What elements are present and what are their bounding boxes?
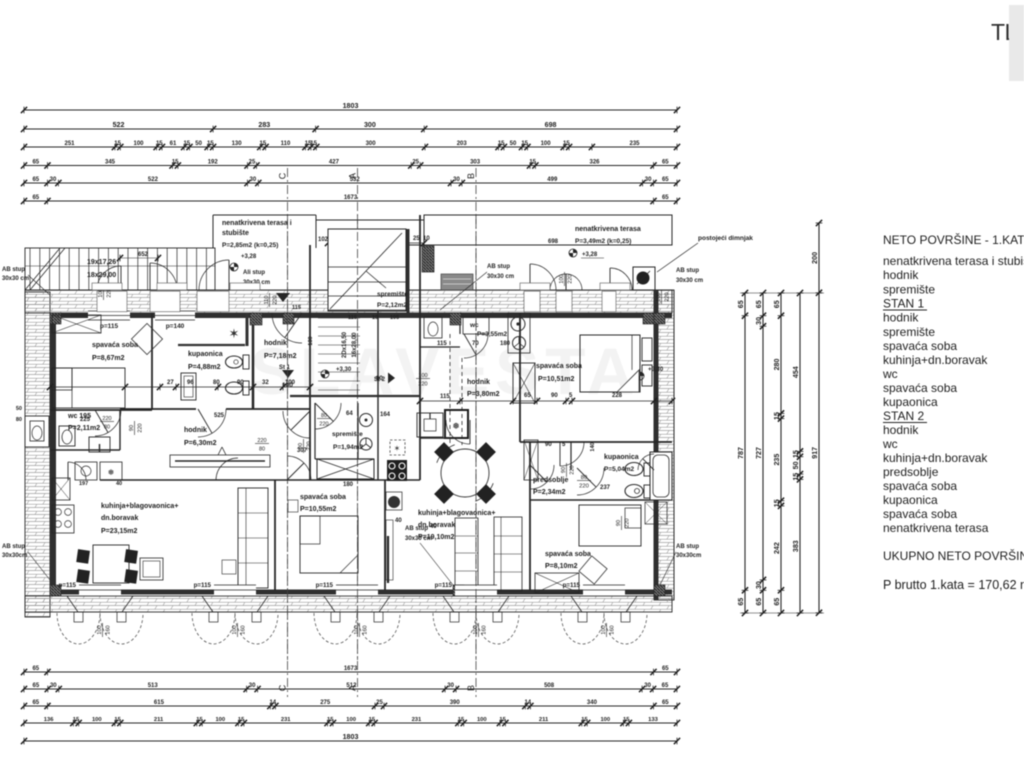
svg-text:164: 164 bbox=[380, 412, 391, 418]
svg-text:15: 15 bbox=[773, 499, 781, 507]
svg-text:180: 180 bbox=[500, 341, 511, 347]
svg-text:P=8,67m2: P=8,67m2 bbox=[92, 355, 125, 362]
svg-text:160: 160 bbox=[106, 625, 112, 634]
svg-text:454: 454 bbox=[792, 366, 800, 378]
svg-text:160: 160 bbox=[482, 625, 488, 634]
svg-text:130: 130 bbox=[232, 141, 243, 147]
svg-text:100: 100 bbox=[97, 625, 103, 634]
svg-text:hodnik: hodnik bbox=[883, 268, 919, 282]
svg-text:220: 220 bbox=[570, 465, 576, 474]
svg-text:65: 65 bbox=[662, 683, 669, 689]
svg-text:A: A bbox=[348, 685, 358, 691]
svg-text:kuhinja+blagovaonica+: kuhinja+blagovaonica+ bbox=[101, 503, 178, 510]
svg-text:15: 15 bbox=[327, 717, 334, 723]
svg-text:15: 15 bbox=[114, 717, 121, 723]
svg-text:237: 237 bbox=[600, 485, 611, 491]
svg-text:115: 115 bbox=[292, 305, 301, 311]
svg-text:spavaća soba: spavaća soba bbox=[883, 479, 957, 493]
svg-text:698: 698 bbox=[548, 239, 559, 245]
svg-text:200: 200 bbox=[811, 252, 819, 264]
svg-text:100: 100 bbox=[346, 717, 356, 723]
svg-text:hodnik: hodnik bbox=[184, 427, 207, 434]
svg-text:kupaonica: kupaonica bbox=[604, 454, 639, 461]
svg-text:15: 15 bbox=[563, 141, 570, 147]
svg-text:P=7,18m2: P=7,18m2 bbox=[264, 353, 297, 360]
svg-text:15: 15 bbox=[73, 717, 80, 723]
svg-text:15: 15 bbox=[183, 141, 190, 147]
svg-text:140: 140 bbox=[590, 442, 596, 451]
svg-text:203: 203 bbox=[457, 141, 468, 147]
svg-text:14: 14 bbox=[269, 700, 276, 706]
svg-text:spremište: spremište bbox=[883, 325, 935, 339]
svg-text:30: 30 bbox=[453, 177, 460, 183]
svg-text:spavaća soba: spavaća soba bbox=[883, 339, 957, 353]
svg-text:1803: 1803 bbox=[343, 733, 359, 741]
svg-text:30x30 cm: 30x30 cm bbox=[405, 536, 432, 542]
svg-text:100: 100 bbox=[92, 717, 102, 723]
svg-text:30x30cm: 30x30cm bbox=[2, 553, 27, 559]
svg-text:65: 65 bbox=[32, 195, 39, 201]
svg-text:110: 110 bbox=[281, 141, 291, 147]
svg-text:115: 115 bbox=[437, 341, 447, 347]
svg-text:275: 275 bbox=[320, 700, 331, 706]
svg-text:30: 30 bbox=[755, 581, 763, 589]
svg-text:P brutto 1.kata = 170,62 m: P brutto 1.kata = 170,62 m bbox=[883, 578, 1024, 592]
svg-text:211: 211 bbox=[539, 717, 549, 723]
svg-text:25: 25 bbox=[249, 159, 256, 165]
svg-text:❅: ❅ bbox=[108, 468, 115, 477]
svg-text:p=140: p=140 bbox=[166, 323, 185, 330]
svg-text:❅: ❅ bbox=[452, 421, 460, 431]
svg-text:kupaonica: kupaonica bbox=[883, 395, 938, 409]
svg-text:300: 300 bbox=[364, 121, 376, 129]
svg-text:303: 303 bbox=[470, 159, 481, 165]
svg-text:100: 100 bbox=[354, 625, 360, 634]
svg-text:nenatkrivena terasa: nenatkrivena terasa bbox=[883, 521, 989, 535]
svg-text:197: 197 bbox=[79, 481, 88, 487]
svg-text:15: 15 bbox=[521, 141, 528, 147]
svg-text:110: 110 bbox=[264, 296, 270, 305]
svg-text:wc: wc bbox=[882, 437, 898, 451]
svg-text:220: 220 bbox=[138, 423, 144, 432]
svg-text:30x30 cm: 30x30 cm bbox=[2, 276, 29, 282]
svg-text:wc: wc bbox=[882, 367, 898, 381]
svg-text:19x17,26: 19x17,26 bbox=[87, 259, 116, 266]
svg-text:AB stup: AB stup bbox=[676, 268, 699, 274]
svg-text:30: 30 bbox=[250, 177, 257, 183]
svg-text:P=2,85m2 (k=0,25): P=2,85m2 (k=0,25) bbox=[222, 242, 278, 249]
svg-text:100: 100 bbox=[600, 717, 610, 723]
svg-text:14: 14 bbox=[524, 700, 531, 706]
svg-text:90: 90 bbox=[545, 442, 552, 448]
svg-text:15: 15 bbox=[792, 473, 800, 481]
svg-text:30x30 cm: 30x30 cm bbox=[676, 278, 703, 284]
svg-text:15: 15 bbox=[310, 141, 317, 147]
svg-text:30: 30 bbox=[50, 683, 57, 689]
svg-text:65: 65 bbox=[662, 666, 669, 672]
svg-text:251: 251 bbox=[64, 141, 75, 147]
svg-text:10: 10 bbox=[372, 315, 378, 321]
svg-text:Ali stup: Ali stup bbox=[243, 270, 265, 276]
svg-text:15: 15 bbox=[458, 717, 465, 723]
svg-text:427: 427 bbox=[329, 159, 340, 165]
svg-text:615: 615 bbox=[154, 700, 165, 706]
svg-text:50: 50 bbox=[792, 461, 800, 469]
svg-text:100: 100 bbox=[541, 141, 552, 147]
svg-text:522: 522 bbox=[113, 121, 125, 129]
svg-text:220: 220 bbox=[102, 416, 111, 422]
svg-text:283: 283 bbox=[258, 121, 270, 129]
svg-text:40: 40 bbox=[430, 524, 437, 530]
svg-text:100: 100 bbox=[477, 717, 487, 723]
svg-text:90: 90 bbox=[561, 467, 567, 473]
svg-text:30: 30 bbox=[249, 683, 256, 689]
svg-text:kuhinja+blagovaonica+: kuhinja+blagovaonica+ bbox=[418, 510, 495, 517]
svg-text:30x30 cm: 30x30 cm bbox=[487, 274, 514, 280]
svg-text:15: 15 bbox=[792, 450, 800, 458]
svg-text:p=115: p=115 bbox=[563, 582, 581, 589]
svg-text:15: 15 bbox=[196, 717, 203, 723]
svg-text:P=5,04m2: P=5,04m2 bbox=[604, 466, 635, 473]
svg-text:spremište: spremište bbox=[883, 283, 935, 297]
svg-text:spavaća soba: spavaća soba bbox=[883, 381, 957, 395]
svg-text:30: 30 bbox=[50, 177, 57, 183]
svg-text:spavaća soba: spavaća soba bbox=[545, 551, 591, 558]
svg-text:525: 525 bbox=[214, 413, 225, 419]
svg-text:220: 220 bbox=[418, 382, 427, 388]
svg-text:115: 115 bbox=[348, 315, 357, 321]
svg-text:spremište: spremište bbox=[377, 291, 408, 298]
svg-text:65: 65 bbox=[662, 177, 669, 183]
svg-text:100: 100 bbox=[559, 274, 565, 283]
svg-text:499: 499 bbox=[547, 177, 558, 183]
svg-text:kuhinja+dn.boravak: kuhinja+dn.boravak bbox=[883, 353, 988, 367]
svg-text:30x30cm: 30x30cm bbox=[676, 553, 701, 559]
svg-text:220: 220 bbox=[319, 422, 328, 428]
svg-text:390: 390 bbox=[450, 700, 461, 706]
svg-text:p=115: p=115 bbox=[435, 582, 453, 589]
svg-text:+3,30: +3,30 bbox=[336, 367, 352, 373]
svg-text:A: A bbox=[348, 173, 358, 179]
svg-text:15: 15 bbox=[623, 717, 630, 723]
svg-text:30: 30 bbox=[755, 317, 763, 325]
svg-text:15: 15 bbox=[260, 141, 267, 147]
svg-text:27: 27 bbox=[167, 380, 174, 386]
svg-text:1673: 1673 bbox=[344, 195, 358, 201]
svg-text:AB stup: AB stup bbox=[487, 264, 510, 270]
svg-text:spavaća soba: spavaća soba bbox=[536, 363, 582, 370]
svg-text:340: 340 bbox=[587, 700, 598, 706]
svg-text:513: 513 bbox=[148, 683, 159, 689]
svg-text:P=2,12m2: P=2,12m2 bbox=[377, 302, 408, 309]
svg-text:B: B bbox=[466, 685, 476, 691]
svg-text:50: 50 bbox=[16, 406, 22, 412]
svg-text:✶: ✶ bbox=[394, 444, 401, 453]
svg-text:P=4,88m2: P=4,88m2 bbox=[188, 364, 221, 371]
svg-text:65: 65 bbox=[737, 598, 745, 606]
svg-text:p=115: p=115 bbox=[59, 582, 77, 589]
svg-text:15: 15 bbox=[156, 141, 163, 147]
svg-text:AB stup: AB stup bbox=[2, 544, 25, 550]
svg-text:65: 65 bbox=[32, 159, 39, 165]
svg-text:C: C bbox=[278, 684, 288, 691]
svg-text:100: 100 bbox=[601, 625, 607, 634]
svg-text:P=10,55m2: P=10,55m2 bbox=[300, 506, 336, 513]
svg-text:225: 225 bbox=[80, 417, 91, 423]
svg-text:NETO POVRŠINE - 1.KAT:: NETO POVRŠINE - 1.KAT: bbox=[883, 232, 1024, 247]
svg-text:220: 220 bbox=[568, 274, 574, 283]
svg-text:STAN 1: STAN 1 bbox=[883, 297, 924, 311]
svg-text:15: 15 bbox=[172, 159, 179, 165]
svg-text:130: 130 bbox=[308, 336, 314, 345]
svg-text:30: 30 bbox=[645, 177, 652, 183]
svg-text:220: 220 bbox=[307, 441, 313, 450]
svg-text:80: 80 bbox=[581, 475, 587, 481]
svg-text:P=23,15m2: P=23,15m2 bbox=[101, 528, 137, 535]
svg-text:P=1,94m2: P=1,94m2 bbox=[333, 444, 364, 451]
svg-text:15: 15 bbox=[581, 717, 588, 723]
svg-text:15: 15 bbox=[238, 717, 245, 723]
svg-text:345: 345 bbox=[105, 159, 116, 165]
svg-text:P=2,34m2: P=2,34m2 bbox=[533, 489, 566, 496]
svg-text:nenatkrivena terasa: nenatkrivena terasa bbox=[575, 226, 641, 233]
svg-text:spavaća soba: spavaća soba bbox=[92, 342, 138, 349]
svg-text:65: 65 bbox=[32, 666, 39, 672]
svg-text:AB stup: AB stup bbox=[405, 526, 428, 532]
svg-text:231: 231 bbox=[281, 717, 291, 723]
svg-text:228: 228 bbox=[612, 393, 623, 399]
svg-text:65: 65 bbox=[737, 300, 745, 308]
svg-text:80: 80 bbox=[213, 380, 220, 386]
svg-text:65: 65 bbox=[32, 177, 39, 183]
svg-text:160: 160 bbox=[241, 625, 247, 634]
svg-text:p=115: p=115 bbox=[316, 582, 334, 589]
svg-text:25: 25 bbox=[376, 700, 383, 706]
svg-text:1673: 1673 bbox=[344, 666, 358, 672]
svg-text:15: 15 bbox=[773, 412, 781, 420]
svg-text:235: 235 bbox=[773, 454, 781, 466]
svg-text:40: 40 bbox=[395, 518, 402, 524]
svg-text:UKUPNO NETO POVRŠINA - 1: UKUPNO NETO POVRŠINA - 1 bbox=[883, 548, 1024, 563]
svg-text:2Dx16,50: 2Dx16,50 bbox=[342, 331, 348, 358]
svg-text:242: 242 bbox=[773, 542, 781, 554]
svg-text:652: 652 bbox=[138, 252, 149, 258]
svg-text:50: 50 bbox=[195, 141, 202, 147]
svg-text:spavaća soba: spavaća soba bbox=[883, 507, 957, 521]
svg-text:kuhinja+dn.boravak: kuhinja+dn.boravak bbox=[883, 451, 988, 465]
svg-text:stubište: stubište bbox=[222, 230, 249, 237]
svg-text:698: 698 bbox=[545, 121, 557, 129]
svg-text:90: 90 bbox=[298, 443, 304, 449]
svg-text:predsoblje: predsoblje bbox=[883, 465, 939, 479]
svg-text:15: 15 bbox=[499, 717, 506, 723]
svg-text:15: 15 bbox=[529, 159, 536, 165]
svg-text:65: 65 bbox=[755, 598, 763, 606]
svg-text:231: 231 bbox=[412, 717, 422, 723]
svg-text:917: 917 bbox=[811, 447, 819, 459]
svg-text:211: 211 bbox=[154, 717, 164, 723]
svg-text:kupaonica: kupaonica bbox=[188, 351, 223, 358]
svg-text:STAN 2: STAN 2 bbox=[883, 409, 924, 423]
svg-text:65: 65 bbox=[662, 700, 669, 706]
svg-text:+3,28: +3,28 bbox=[582, 252, 598, 258]
svg-text:50: 50 bbox=[510, 141, 517, 147]
svg-text:P=3,49m2 (k=0,25): P=3,49m2 (k=0,25) bbox=[575, 238, 631, 245]
svg-text:160: 160 bbox=[610, 625, 616, 634]
svg-text:64: 64 bbox=[346, 411, 353, 417]
svg-text:kupaonica: kupaonica bbox=[883, 493, 938, 507]
svg-text:hodnik: hodnik bbox=[467, 379, 490, 386]
svg-text:100: 100 bbox=[133, 141, 144, 147]
svg-text:15: 15 bbox=[369, 717, 376, 723]
svg-text:90: 90 bbox=[129, 425, 135, 431]
svg-text:15: 15 bbox=[207, 141, 214, 147]
svg-text:80: 80 bbox=[259, 447, 265, 453]
svg-text:hodnik: hodnik bbox=[883, 423, 919, 437]
svg-text:522: 522 bbox=[148, 177, 159, 183]
svg-text:220: 220 bbox=[273, 295, 279, 304]
svg-text:AB stup: AB stup bbox=[2, 267, 25, 273]
svg-text:65: 65 bbox=[662, 195, 669, 201]
svg-text:B: B bbox=[466, 173, 476, 179]
svg-text:105: 105 bbox=[390, 315, 399, 321]
svg-text:30: 30 bbox=[644, 683, 651, 689]
svg-text:St 2: St 2 bbox=[374, 377, 386, 383]
svg-text:100: 100 bbox=[418, 373, 427, 379]
svg-text:65: 65 bbox=[773, 598, 781, 606]
svg-text:160: 160 bbox=[363, 625, 369, 634]
svg-text:65: 65 bbox=[773, 300, 781, 308]
svg-text:p=115: p=115 bbox=[100, 323, 119, 330]
svg-text:80: 80 bbox=[16, 417, 22, 423]
svg-text:100: 100 bbox=[656, 292, 662, 301]
svg-text:25: 25 bbox=[412, 159, 419, 165]
svg-text:100: 100 bbox=[215, 717, 225, 723]
svg-text:40: 40 bbox=[116, 481, 122, 487]
svg-text:787: 787 bbox=[737, 447, 745, 459]
svg-text:+3,30: +3,30 bbox=[648, 367, 664, 373]
svg-text:P=6,30m2: P=6,30m2 bbox=[184, 440, 217, 447]
svg-text:nenatkrivena terasa i stubišt: nenatkrivena terasa i stubišt bbox=[883, 254, 1024, 268]
svg-text:280: 280 bbox=[773, 359, 781, 371]
svg-text:hodnik: hodnik bbox=[264, 340, 287, 347]
svg-text:61: 61 bbox=[170, 141, 177, 147]
svg-text:wc: wc bbox=[469, 322, 479, 329]
svg-text:+3,28: +3,28 bbox=[241, 254, 257, 260]
svg-text:383: 383 bbox=[792, 540, 800, 552]
svg-text:300: 300 bbox=[366, 141, 377, 147]
svg-text:65: 65 bbox=[32, 700, 39, 706]
svg-text:192: 192 bbox=[208, 159, 219, 165]
svg-text:90: 90 bbox=[616, 520, 622, 526]
svg-text:15: 15 bbox=[498, 141, 505, 147]
svg-text:220: 220 bbox=[625, 518, 631, 527]
svg-text:✶: ✶ bbox=[229, 326, 240, 341]
svg-text:136: 136 bbox=[44, 717, 54, 723]
svg-text:p=115: p=115 bbox=[194, 582, 212, 589]
svg-text:90: 90 bbox=[551, 393, 558, 399]
svg-text:C: C bbox=[278, 172, 288, 179]
svg-text:15: 15 bbox=[114, 141, 121, 147]
svg-text:30: 30 bbox=[447, 683, 454, 689]
svg-text:220: 220 bbox=[257, 438, 266, 444]
svg-text:65: 65 bbox=[755, 300, 763, 308]
svg-text:P=8,10m2: P=8,10m2 bbox=[545, 563, 578, 570]
svg-text:326: 326 bbox=[589, 159, 600, 165]
svg-text:65: 65 bbox=[33, 683, 40, 689]
svg-text:dn.boravak: dn.boravak bbox=[101, 515, 138, 522]
svg-text:220: 220 bbox=[579, 484, 589, 490]
svg-text:220: 220 bbox=[665, 292, 671, 301]
svg-text:235: 235 bbox=[629, 141, 640, 147]
svg-text:P=10,51m2: P=10,51m2 bbox=[538, 376, 574, 383]
svg-text:nenatkrivena terasa i: nenatkrivena terasa i bbox=[222, 220, 292, 227]
svg-text:508: 508 bbox=[544, 683, 555, 689]
svg-text:32: 32 bbox=[262, 380, 269, 386]
svg-text:100: 100 bbox=[232, 625, 238, 634]
svg-text:65: 65 bbox=[662, 159, 669, 165]
svg-text:postojeći dimnjak: postojeći dimnjak bbox=[698, 235, 753, 242]
svg-text:727: 727 bbox=[755, 447, 763, 459]
svg-text:P=3,55m2: P=3,55m2 bbox=[477, 331, 508, 338]
svg-text:115: 115 bbox=[440, 394, 450, 400]
svg-text:P=3,80m2: P=3,80m2 bbox=[467, 391, 500, 398]
svg-text:hodnik: hodnik bbox=[883, 311, 919, 325]
svg-text:180: 180 bbox=[343, 482, 354, 488]
svg-text:1803: 1803 bbox=[343, 102, 359, 110]
svg-text:spavaća soba: spavaća soba bbox=[300, 494, 346, 501]
svg-text:133: 133 bbox=[648, 717, 658, 723]
svg-text:AB stup: AB stup bbox=[676, 544, 699, 550]
